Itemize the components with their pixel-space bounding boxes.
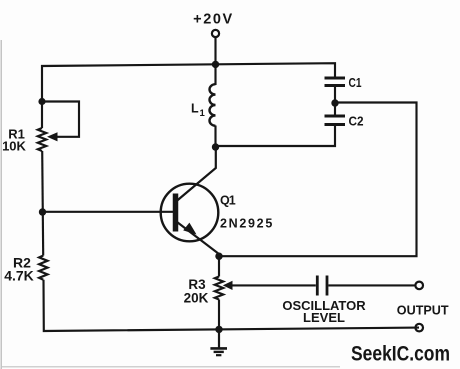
node: +20V junction dot on top rail — [212, 61, 219, 68]
wire: base wire from left rail to Q1 base bar — [43, 211, 174, 213]
ground symbol bars — [210, 347, 227, 350]
wire: coupling capacitor to output terminal — [328, 284, 415, 286]
svg-text:1: 1 — [200, 108, 206, 119]
wire: emitter node to R3 — [218, 256, 220, 276]
node: R1 top tap junction dot — [38, 98, 45, 105]
wire: R1 wiper loop — [42, 102, 79, 137]
capacitor C1 top plate — [325, 77, 346, 80]
wire: C1 bottom plate to C1/C2 node — [334, 87, 336, 103]
node: base junction dot on left rail — [39, 208, 46, 215]
svg-text:LEVEL: LEVEL — [303, 310, 345, 325]
svg-text:+20V: +20V — [193, 11, 234, 27]
transistor Q1 base bar — [173, 194, 179, 232]
wire: feedback from C1/C2 node right, down, to emitter node — [221, 103, 417, 257]
svg-text:C1: C1 — [349, 76, 362, 90]
output terminal top circle — [415, 282, 423, 290]
capacitor C1 bottom plate — [325, 84, 346, 87]
wire: tank bottom rail from L1 node to C2 bottom — [216, 126, 336, 146]
potentiometer R3 wiper arrow — [223, 281, 233, 290]
svg-text:4.7K: 4.7K — [4, 268, 34, 284]
wire: +20V terminal to top rail — [214, 37, 216, 65]
wire: left rail R1 to R2 — [42, 151, 43, 256]
wire: C1/C2 node down to C2 top plate — [334, 103, 336, 116]
svg-text:20K: 20K — [184, 291, 209, 306]
resistor R2 4.7K zigzag — [39, 256, 47, 280]
scan artifact: faint bottom streak — [2, 366, 340, 368]
potentiometer R3 20K zigzag — [215, 277, 223, 300]
+20V terminal circle — [212, 30, 219, 37]
svg-text:OUTPUT: OUTPUT — [397, 303, 449, 317]
node: C1/C2 junction dot — [331, 99, 338, 106]
scan artifact: faint left edge line — [0, 40, 2, 369]
node: ground junction dot on bottom rail — [215, 326, 222, 333]
wire: left rail R2 to bottom rail — [44, 280, 420, 331]
potentiometer R1 wiper arrow — [47, 132, 58, 141]
node: L1/collector/tank junction dot — [212, 143, 219, 150]
wire: L1 bottom to collector node — [214, 126, 216, 148]
transistor Q1 emitter lead — [177, 222, 219, 256]
node: emitter junction dot — [215, 253, 222, 260]
wire: top rail down to L1 — [214, 64, 216, 85]
capacitor C2 bottom plate — [325, 123, 346, 126]
svg-text:C2: C2 — [349, 114, 364, 128]
wire: R3 bottom to ground rail — [218, 300, 220, 330]
wire: R3 wiper to coupling capacitor — [231, 284, 316, 286]
coupling capacitor right plate — [326, 276, 329, 296]
svg-text:2N2925: 2N2925 — [220, 217, 274, 231]
output terminal bottom circle — [415, 324, 423, 332]
svg-text:SeekIC.com: SeekIC.com — [351, 343, 450, 366]
transistor Q1 emitter arrowhead — [183, 223, 196, 235]
potentiometer R1 10K zigzag — [38, 128, 46, 151]
capacitor C2 top plate — [325, 115, 346, 118]
svg-text:10K: 10K — [2, 139, 26, 154]
coupling capacitor left plate — [316, 276, 319, 296]
wire: ground stub — [218, 329, 220, 347]
inductor L1 coil — [209, 84, 215, 126]
wire: top rail from left branch to C1 branch — [42, 63, 335, 128]
svg-text:Q1: Q1 — [220, 193, 236, 207]
transistor Q1 circle — [161, 184, 219, 242]
svg-text:L: L — [191, 102, 199, 116]
transistor Q1 collector lead — [176, 146, 216, 202]
